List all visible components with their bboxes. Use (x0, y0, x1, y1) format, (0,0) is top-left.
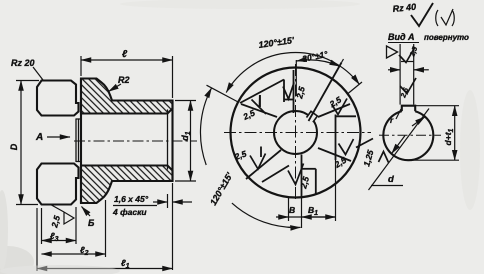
30 deg dimension arc (297, 60, 340, 66)
right view texts (388, 46, 455, 185)
roughness mark 2.5 on chamfer (51, 205, 75, 225)
middle view roughness check marks (250, 83, 389, 185)
upper hatched web and sleeve section (81, 79, 173, 114)
120 deg top dimension arc (226, 53, 359, 93)
bore circle with keyway (274, 111, 317, 154)
keyway slot bottom tick (401, 61, 414, 63)
d+t1 extension lines (416, 105, 459, 107)
svg-text:Б: Б (88, 218, 95, 228)
keyway roughness checks (399, 47, 415, 63)
check lower-left slot (250, 154, 266, 170)
svg-text:В: В (289, 205, 295, 215)
right view dimensions (369, 44, 460, 190)
hub left face line (80, 79, 82, 204)
upper-left long chord (240, 80, 284, 104)
middle view slot edges (240, 63, 373, 198)
B dimension extension (288, 198, 290, 221)
dimension d1 (175, 100, 196, 102)
middle view dimensions (200, 53, 362, 228)
left face edge through bore (75, 119, 77, 162)
120 deg right extension stub (348, 82, 362, 94)
check upper-left slot (252, 95, 267, 114)
check top slot (283, 83, 294, 100)
shaft circle with keyway (383, 111, 433, 160)
dimension l1 (36, 208, 38, 271)
bottom slot left edge (301, 155, 303, 198)
check bottom slot (288, 164, 304, 185)
underline Vid A (388, 42, 419, 44)
middle view texts (208, 35, 375, 217)
outer circle (231, 68, 361, 198)
top slot left edge (283, 80, 285, 103)
svg-text:Rz 20: Rz 20 (11, 58, 35, 68)
B slot edge extension (301, 197, 303, 228)
bore entry step top (76, 118, 81, 120)
30 deg extension over keyway diagonal (342, 59, 344, 63)
sleeve end face edge (171, 101, 173, 182)
top slot face chord (284, 99, 294, 101)
bore chamfer edge line on end face (167, 110, 169, 169)
svg-text:ℓ: ℓ (122, 49, 128, 60)
small tick in parens (441, 9, 453, 25)
d diagonal dimension (369, 109, 430, 191)
dimension l top (80, 56, 82, 76)
check 1,25 right (379, 152, 389, 163)
upper-right face chord (335, 115, 356, 117)
r leader (396, 109, 401, 119)
upper-right radial edge (318, 104, 350, 117)
R2 leader (109, 84, 122, 92)
120 deg bottom dimension arc upper segment (200, 88, 211, 165)
dimension D (16, 80, 39, 82)
centerline of left view (74, 140, 197, 142)
keyway bump (307, 111, 318, 122)
d+t1 dimension line (454, 106, 456, 161)
right view centerlines (379, 134, 441, 136)
B/B1 dimension line (276, 216, 336, 218)
left view texts (9, 49, 192, 270)
svg-text:d: d (388, 174, 394, 185)
general roughness tick (411, 3, 433, 26)
lower hatched web and sleeve section (81, 166, 173, 204)
bottom slot face chord (302, 168, 316, 170)
check lower-right slot (339, 139, 354, 155)
svg-text:1,6 x 45°: 1,6 x 45° (114, 194, 149, 204)
keyway slot (402, 106, 415, 112)
120 deg left extension stub (207, 85, 239, 102)
lower tooth block (unhatched section through face teeth) (37, 164, 79, 205)
middle view centerlines (224, 64, 371, 202)
Rz20 leader (33, 67, 43, 80)
svg-text:повернуто: повернуто (424, 33, 469, 42)
slot bottom edge through bore (78, 119, 80, 162)
roughness tail to rim right (356, 139, 373, 148)
30 deg extension over top slot (295, 60, 297, 96)
upper-left drop stub (259, 95, 261, 107)
bottom slot right edge (315, 169, 317, 194)
chamfer dimension arrows 1.6x45 (167, 194, 169, 208)
B1 extension (335, 160, 337, 221)
svg-text:A: A (35, 132, 43, 143)
top slot right edge (293, 70, 295, 113)
svg-text:4 фаски: 4 фаски (112, 207, 147, 217)
lower-left radial edge (246, 150, 281, 179)
svg-text:Вид А: Вид А (388, 32, 415, 42)
120 deg bottom dimension arc lower segment (232, 203, 301, 227)
lower-left chord segment (262, 166, 289, 183)
keyway side roughness flag (387, 46, 398, 58)
parenthesis tick right (452, 10, 454, 26)
svg-text:R2: R2 (118, 75, 130, 85)
dimension and annotation lines of left view (16, 56, 196, 271)
parenthesis tick left (436, 10, 438, 26)
dimension l3 (41, 208, 43, 244)
bore entry step bottom (76, 161, 81, 163)
dimension l2 (105, 200, 107, 257)
lower-left drop stub (260, 147, 262, 158)
d label shelf (371, 185, 403, 187)
leader for point B (82, 207, 91, 217)
upper tooth block (unhatched section through face teeth) (37, 81, 79, 116)
B1 long edge line (335, 115, 337, 161)
check upper-right slot (332, 99, 348, 115)
keyway width dimension arrows (399, 44, 401, 105)
upper-left radial edge (241, 104, 277, 117)
svg-text:D: D (9, 143, 19, 150)
lower-right radial edge (318, 148, 351, 161)
keyway diagonal line (309, 63, 342, 122)
view direction arrow A (47, 136, 70, 138)
